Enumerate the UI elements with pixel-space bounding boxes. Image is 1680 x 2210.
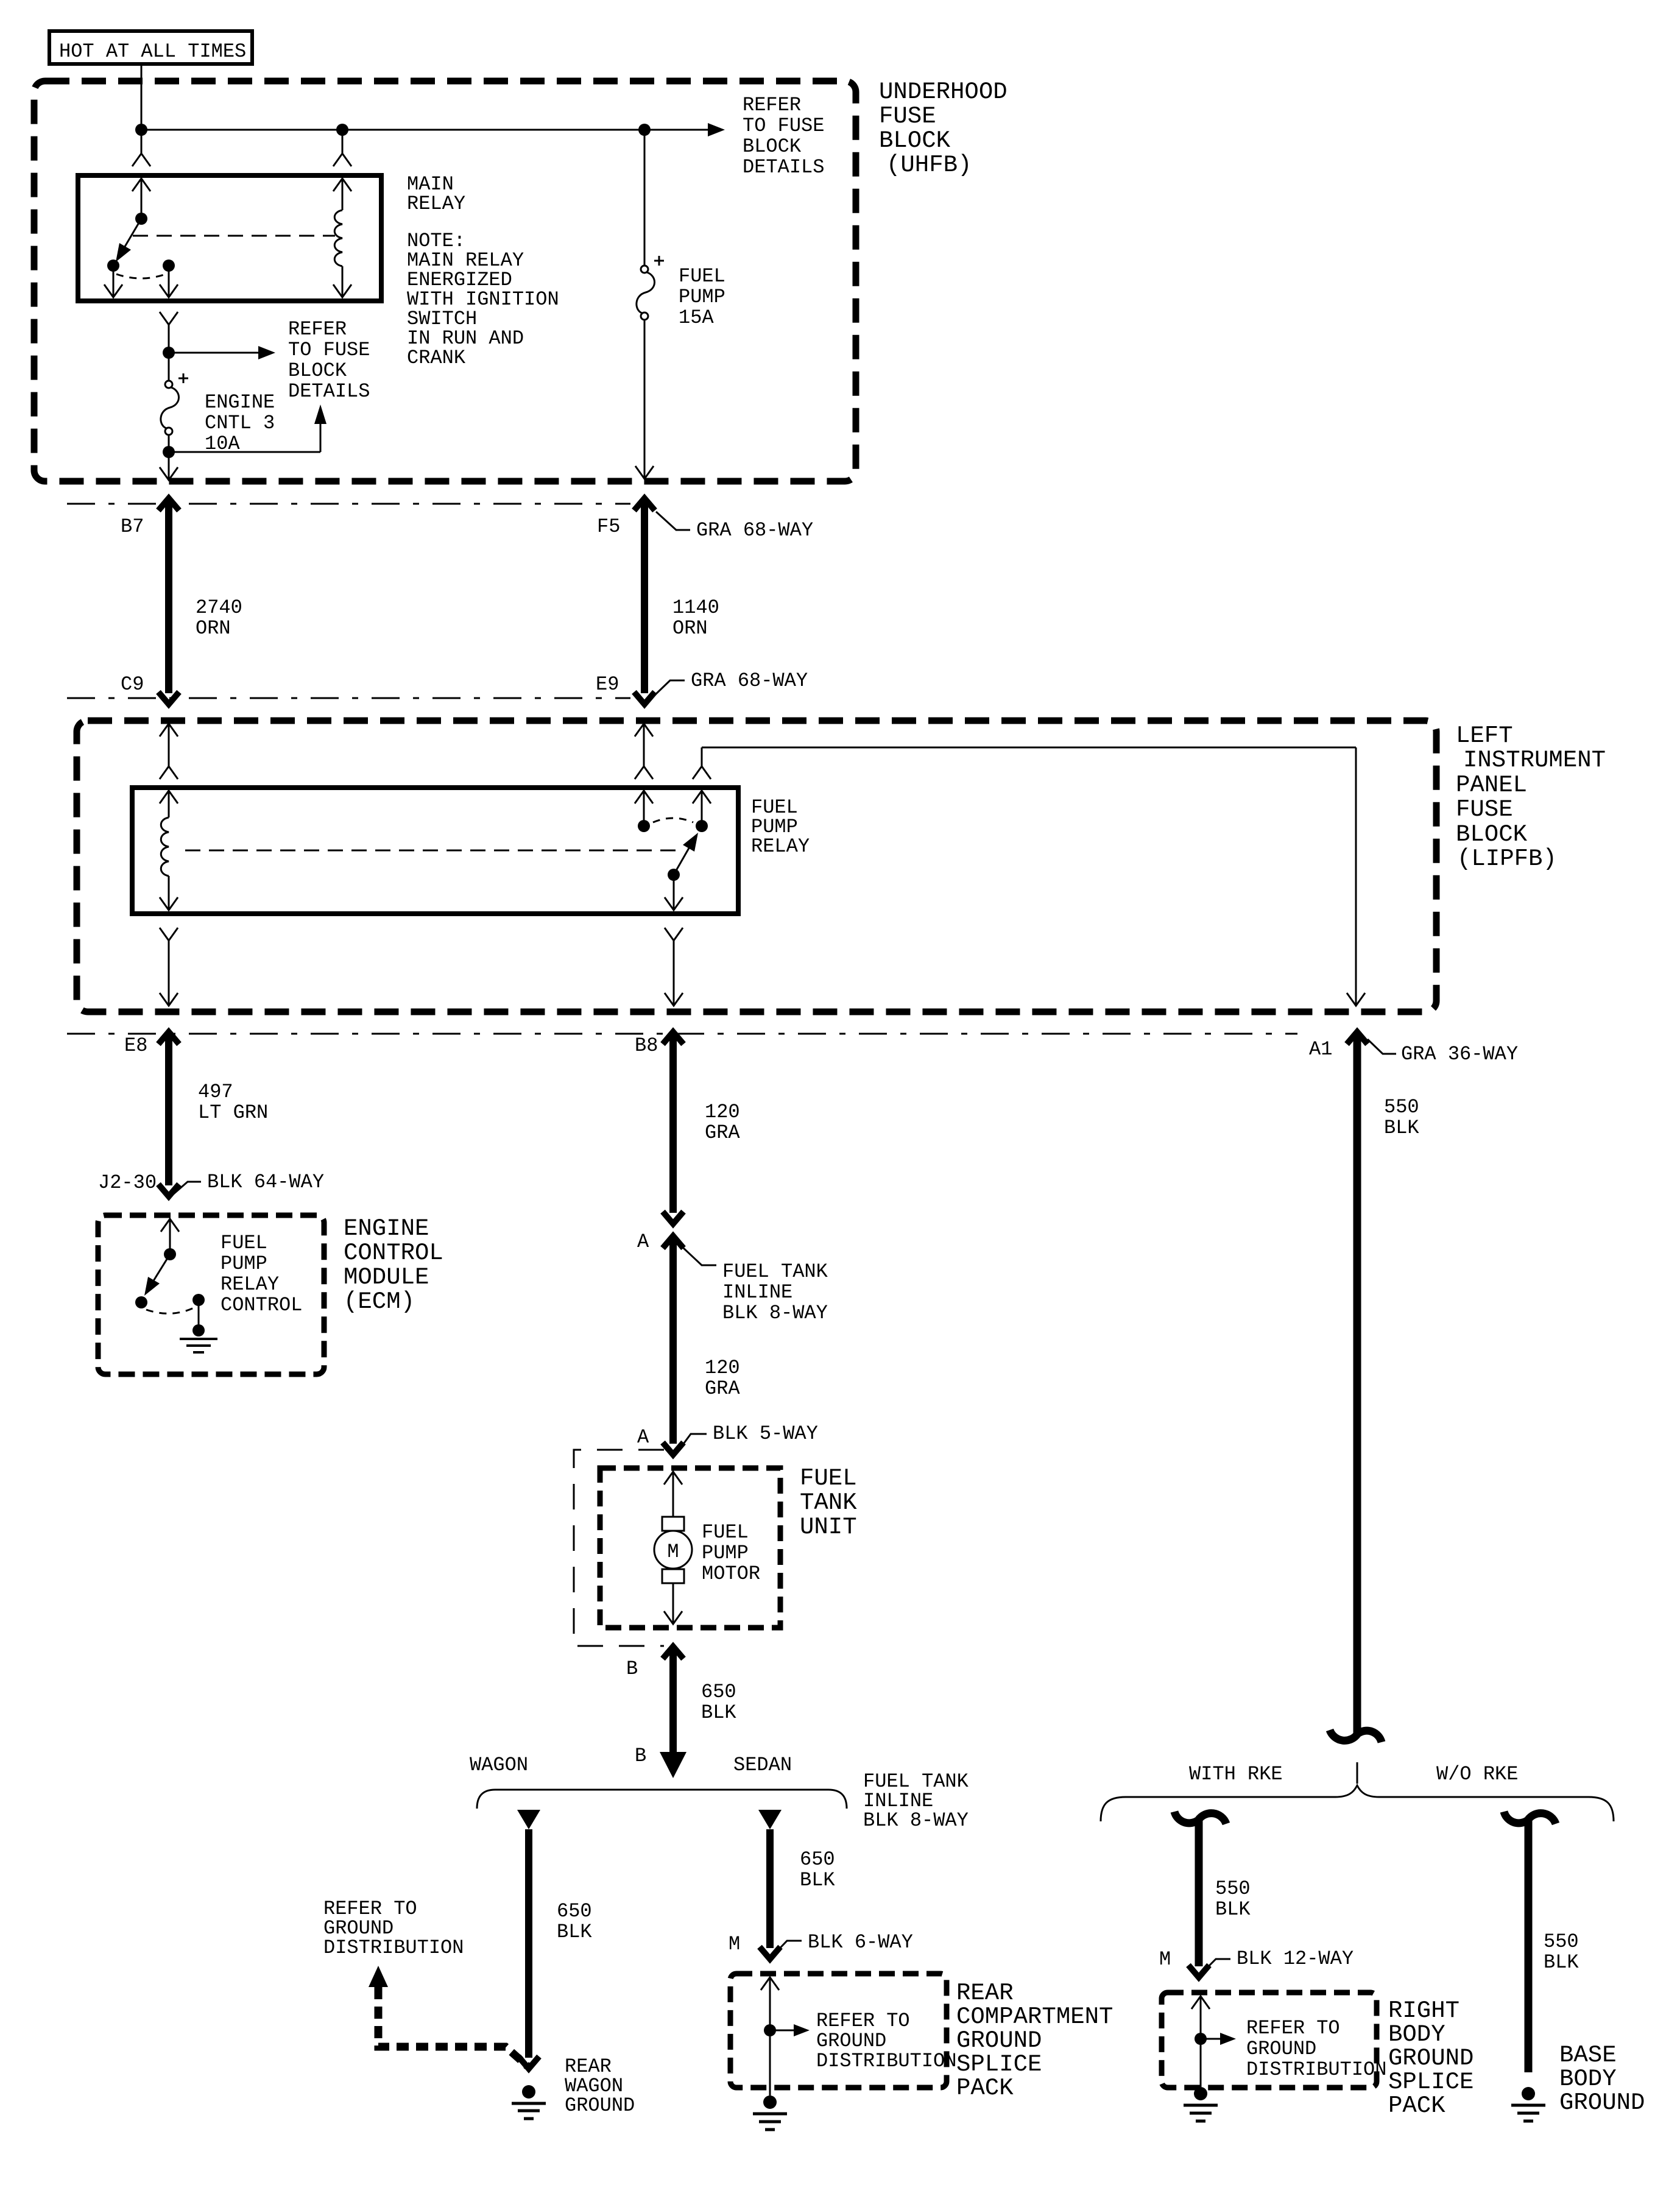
svg-text:WITH RKE: WITH RKE [1189, 1763, 1283, 1785]
svg-text:LT GRN: LT GRN [198, 1101, 268, 1124]
svg-text:MOTOR: MOTOR [702, 1562, 760, 1585]
svg-text:REFER TO: REFER TO [816, 2010, 910, 2032]
svg-text:TO FUSE: TO FUSE [288, 339, 370, 361]
svg-text:BASE: BASE [1559, 2042, 1617, 2069]
svg-text:GROUND: GROUND [1246, 2038, 1316, 2060]
svg-text:120: 120 [705, 1101, 740, 1123]
svg-text:REFER: REFER [743, 94, 801, 116]
svg-text:1140: 1140 [672, 596, 719, 619]
svg-text:SEDAN: SEDAN [733, 1754, 792, 1776]
svg-text:BODY: BODY [1388, 2021, 1445, 2048]
svg-text:DETAILS: DETAILS [743, 156, 824, 178]
svg-text:FUEL: FUEL [800, 1465, 857, 1492]
svg-text:650: 650 [701, 1681, 736, 1703]
svg-text:GRA 36-WAY: GRA 36-WAY [1401, 1043, 1518, 1065]
svg-text:BLK 8-WAY: BLK 8-WAY [863, 1809, 969, 1832]
svg-text:BLK 64-WAY: BLK 64-WAY [207, 1171, 324, 1193]
svg-text:550: 550 [1544, 1930, 1579, 1953]
svg-text:E9: E9 [596, 673, 619, 696]
svg-text:ORN: ORN [196, 617, 231, 640]
svg-text:FUEL TANK: FUEL TANK [722, 1260, 828, 1283]
svg-text:E8: E8 [124, 1034, 147, 1057]
svg-text:WAGON: WAGON [470, 1754, 528, 1776]
svg-text:LEFT: LEFT [1456, 722, 1513, 749]
svg-text:B: B [626, 1657, 638, 1680]
svg-text:DISTRIBUTION: DISTRIBUTION [1246, 2058, 1386, 2081]
svg-text:COMPARTMENT: COMPARTMENT [956, 2003, 1113, 2030]
svg-text:DETAILS: DETAILS [288, 380, 370, 403]
svg-text:BLK 5-WAY: BLK 5-WAY [713, 1422, 818, 1445]
svg-text:REAR: REAR [956, 1980, 1014, 2007]
svg-text:PUMP: PUMP [702, 1542, 749, 1564]
svg-text:GRA 68-WAY: GRA 68-WAY [696, 519, 813, 542]
svg-text:FUSE: FUSE [1456, 796, 1513, 823]
svg-text:TANK: TANK [800, 1489, 857, 1516]
svg-text:BLK: BLK [557, 1921, 592, 1943]
svg-text:GROUND: GROUND [565, 2094, 635, 2117]
svg-text:PANEL: PANEL [1456, 772, 1527, 799]
svg-text:UNIT: UNIT [800, 1514, 857, 1541]
svg-text:A: A [637, 1230, 649, 1253]
svg-text:RIGHT: RIGHT [1388, 1997, 1459, 2024]
svg-text:BLK: BLK [701, 1701, 736, 1724]
svg-text:M: M [1159, 1948, 1171, 1971]
svg-text:CRANK: CRANK [407, 347, 466, 369]
svg-text:FUEL: FUEL [221, 1232, 267, 1254]
svg-text:BLK: BLK [1384, 1117, 1419, 1139]
svg-text:INSTRUMENT: INSTRUMENT [1463, 747, 1606, 774]
svg-text:REFER: REFER [288, 318, 347, 341]
svg-text:(UHFB): (UHFB) [886, 152, 972, 178]
svg-text:GRA 68-WAY: GRA 68-WAY [691, 669, 808, 692]
svg-text:GRA: GRA [705, 1121, 740, 1144]
svg-text:MODULE: MODULE [344, 1264, 429, 1291]
svg-text:550: 550 [1384, 1096, 1419, 1118]
svg-text:A: A [637, 1426, 649, 1449]
svg-text:F5: F5 [597, 515, 620, 538]
svg-text:650: 650 [800, 1848, 835, 1871]
svg-text:M: M [667, 1541, 679, 1563]
svg-text:DISTRIBUTION: DISTRIBUTION [816, 2050, 956, 2072]
svg-text:GRA: GRA [705, 1377, 740, 1400]
svg-text:GROUND: GROUND [1559, 2089, 1645, 2116]
svg-text:INLINE: INLINE [722, 1281, 792, 1304]
svg-text:J2-30: J2-30 [98, 1171, 157, 1194]
svg-text:GROUND: GROUND [816, 2030, 886, 2052]
svg-text:RELAY: RELAY [751, 835, 810, 858]
svg-text:B8: B8 [635, 1034, 658, 1057]
svg-text:DISTRIBUTION: DISTRIBUTION [323, 1936, 464, 1959]
svg-text:B7: B7 [121, 515, 144, 538]
svg-text:FUEL: FUEL [702, 1521, 749, 1544]
svg-text:BLK: BLK [1544, 1951, 1579, 1974]
svg-text:SPLICE: SPLICE [956, 2051, 1042, 2078]
svg-text:BLK 8-WAY: BLK 8-WAY [722, 1302, 828, 1324]
svg-text:M: M [729, 1933, 740, 1955]
svg-text:650: 650 [557, 1900, 592, 1922]
svg-text:ENGINE: ENGINE [344, 1215, 429, 1242]
svg-text:BLOCK: BLOCK [288, 359, 347, 382]
svg-text:2740: 2740 [196, 596, 242, 619]
svg-text:CONTROL: CONTROL [221, 1294, 302, 1316]
svg-text:BLK 6-WAY: BLK 6-WAY [808, 1931, 913, 1954]
svg-text:FUEL: FUEL [679, 265, 725, 288]
svg-text:497: 497 [198, 1081, 233, 1103]
svg-text:BLK: BLK [1215, 1898, 1251, 1921]
svg-text:PUMP: PUMP [221, 1252, 267, 1275]
svg-text:BLOCK: BLOCK [879, 127, 951, 154]
svg-text:CNTL 3: CNTL 3 [205, 412, 275, 434]
svg-text:RELAY: RELAY [407, 192, 465, 215]
svg-text:(LIPFB): (LIPFB) [1457, 846, 1557, 872]
svg-text:C9: C9 [121, 673, 144, 696]
svg-text:BLK: BLK [800, 1869, 835, 1891]
svg-text:RELAY: RELAY [221, 1273, 279, 1296]
svg-text:BODY: BODY [1559, 2066, 1617, 2092]
svg-text:SPLICE: SPLICE [1388, 2069, 1474, 2095]
svg-text:FUSE: FUSE [879, 103, 936, 130]
svg-text:UNDERHOOD: UNDERHOOD [879, 79, 1008, 105]
svg-text:REFER TO: REFER TO [1246, 2017, 1340, 2039]
svg-text:BLOCK: BLOCK [743, 135, 802, 158]
svg-text:550: 550 [1215, 1877, 1251, 1900]
svg-text:GROUND: GROUND [1388, 2045, 1474, 2072]
svg-text:HOT AT ALL TIMES: HOT AT ALL TIMES [59, 40, 246, 63]
svg-text:PUMP: PUMP [679, 286, 725, 308]
svg-text:120: 120 [705, 1357, 740, 1379]
svg-text:CONTROL: CONTROL [344, 1240, 443, 1266]
svg-text:BLK 12-WAY: BLK 12-WAY [1237, 1947, 1354, 1970]
svg-text:GROUND: GROUND [956, 2027, 1042, 2054]
svg-text:BLOCK: BLOCK [1456, 821, 1528, 848]
svg-text:(ECM): (ECM) [344, 1288, 415, 1315]
svg-text:TO FUSE: TO FUSE [743, 115, 824, 137]
svg-text:15A: 15A [679, 306, 714, 329]
svg-text:W/O RKE: W/O RKE [1436, 1763, 1518, 1785]
svg-text:ORN: ORN [672, 617, 708, 640]
svg-text:B: B [635, 1745, 646, 1767]
svg-text:PACK: PACK [956, 2075, 1014, 2102]
svg-text:ENGINE: ENGINE [205, 391, 275, 414]
svg-text:A1: A1 [1309, 1038, 1332, 1061]
svg-text:PACK: PACK [1388, 2092, 1445, 2119]
